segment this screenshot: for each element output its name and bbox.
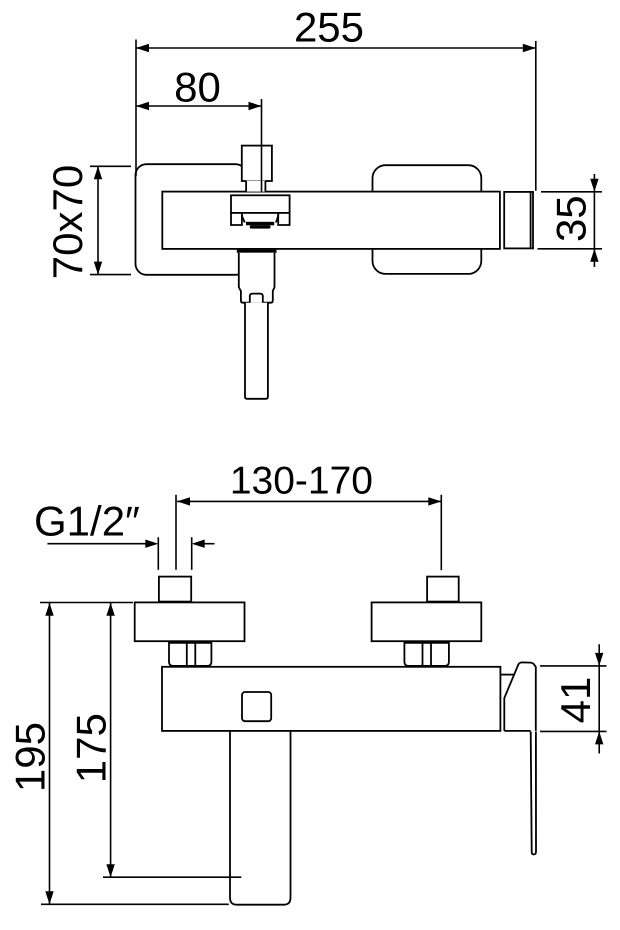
dim 80 line	[136, 102, 262, 110]
dim 195 label	[6, 722, 53, 792]
dim 41 extension line top	[540, 665, 607, 667]
dim 80 extension line right	[261, 99, 263, 192]
dim 70x70 top tick	[90, 165, 131, 167]
cartridge trapezoid right side	[276, 213, 278, 223]
nut right	[404, 643, 449, 666]
dim 130-170 line	[177, 497, 441, 505]
handle collar line	[500, 674, 514, 676]
nut left	[169, 643, 211, 666]
handle stem (plan)	[242, 146, 272, 181]
spout (front)	[230, 731, 291, 905]
dim 70x70 bottom tick	[90, 274, 131, 276]
cartridge dark band upper	[246, 222, 274, 226]
escutcheon right	[372, 602, 482, 641]
svg-text:130-170: 130-170	[230, 460, 373, 503]
svg-text:41: 41	[552, 677, 599, 724]
G1/2 thread line right	[191, 537, 193, 570]
supply stub right (G1/2)	[427, 577, 459, 602]
logo plate	[242, 692, 271, 721]
cartridge trapezoid left side	[242, 213, 245, 223]
spout notch (plan)	[250, 294, 263, 303]
dim 41 label	[552, 677, 599, 724]
spout shadow band (plan)	[237, 250, 277, 253]
cartridge cover (plan)	[231, 195, 290, 213]
dim 35 label	[548, 195, 595, 242]
dim 70x70 line	[94, 166, 102, 274]
svg-text:70x70: 70x70	[44, 165, 91, 279]
spout tube (plan)	[245, 303, 268, 399]
dim 35 extension line top	[541, 191, 602, 193]
dim 41 extension line bottom	[540, 730, 607, 732]
dim 175 label	[68, 713, 115, 783]
dim 195/175 extension line top	[40, 602, 133, 604]
dim 255 extension line right	[535, 41, 537, 191]
dim 195 line	[45, 603, 53, 905]
dim 130-170 label	[230, 460, 373, 503]
svg-text:80: 80	[174, 64, 221, 111]
dim 255 label	[294, 3, 364, 50]
dim 195 extension line bottom	[41, 903, 229, 905]
dim 175 extension line bottom	[103, 876, 241, 878]
cartridge base left tab	[231, 213, 242, 225]
svg-text:195: 195	[6, 722, 53, 792]
cartridge base right tab	[278, 213, 289, 225]
svg-text:255: 255	[294, 3, 364, 50]
dim 41 line	[595, 644, 603, 753]
handle neck	[246, 181, 265, 192]
dim 35 line	[590, 174, 598, 267]
supply stub left (G1/2)	[159, 577, 191, 602]
wall flange right	[373, 165, 482, 274]
G1/2 dim line left	[47, 540, 158, 548]
dim 35 extension line bottom	[538, 248, 603, 250]
dim 255 line	[136, 44, 536, 52]
dim 255 extension line left	[135, 40, 137, 177]
dim 70x70 label	[44, 165, 91, 279]
cartridge dark band lower	[250, 225, 271, 228]
wall flange left (70x70)	[136, 164, 247, 275]
mixer body (plan)	[162, 192, 500, 249]
dim 175 line	[106, 603, 114, 878]
spout upper section (plan)	[239, 253, 275, 303]
G1/2 thread line left	[157, 537, 159, 570]
dim 130-170 extension line right	[440, 495, 442, 570]
G1/2 label	[34, 498, 140, 545]
handle base	[504, 662, 536, 731]
dim 80 label	[174, 64, 221, 111]
dim 130-170 extension line left / stub centreline	[175, 495, 177, 570]
G1/2 dim line right	[192, 540, 215, 548]
mixer body (front)	[162, 667, 500, 731]
outlet end cap	[504, 192, 533, 249]
svg-text:175: 175	[68, 713, 115, 783]
svg-text:G1/2″: G1/2″	[34, 498, 140, 545]
escutcheon left	[135, 602, 245, 641]
svg-text:35: 35	[548, 195, 595, 242]
handle lever blade	[531, 732, 536, 855]
